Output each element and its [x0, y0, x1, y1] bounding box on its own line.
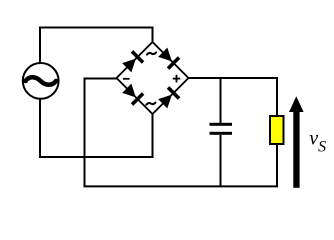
diode D3 (left to bottom)	[121, 83, 144, 106]
wire: capacitor bottom lead	[220, 135, 222, 186]
diode D1 (left to top)	[121, 50, 144, 73]
capacitor C1 bottom plate	[210, 132, 233, 135]
bridge diamond outline	[117, 42, 189, 114]
label: plus terminal	[173, 75, 181, 83]
wire: bridge plus terminal to load top	[189, 78, 278, 116]
wire: bridge minus terminal to bottom rail to load bottom	[85, 79, 278, 187]
wire: source top to bridge top AC terminal	[40, 28, 153, 64]
AC source VS	[23, 63, 59, 99]
diode D2 (top to right)	[157, 47, 180, 70]
wire: source bottom to bridge bottom AC terminal	[40, 99, 153, 157]
arrow vs head	[289, 96, 304, 112]
resistor R load (yellow)	[270, 116, 284, 144]
label: top AC terminal tilde	[147, 52, 156, 54]
wire: capacitor top lead	[220, 78, 222, 123]
arrow vs shaft	[293, 108, 299, 188]
label: minus terminal	[123, 78, 130, 80]
label: bottom AC terminal tilde	[146, 103, 155, 105]
capacitor C1 top plate	[210, 123, 233, 126]
diode D4 (bottom to right)	[157, 86, 180, 109]
